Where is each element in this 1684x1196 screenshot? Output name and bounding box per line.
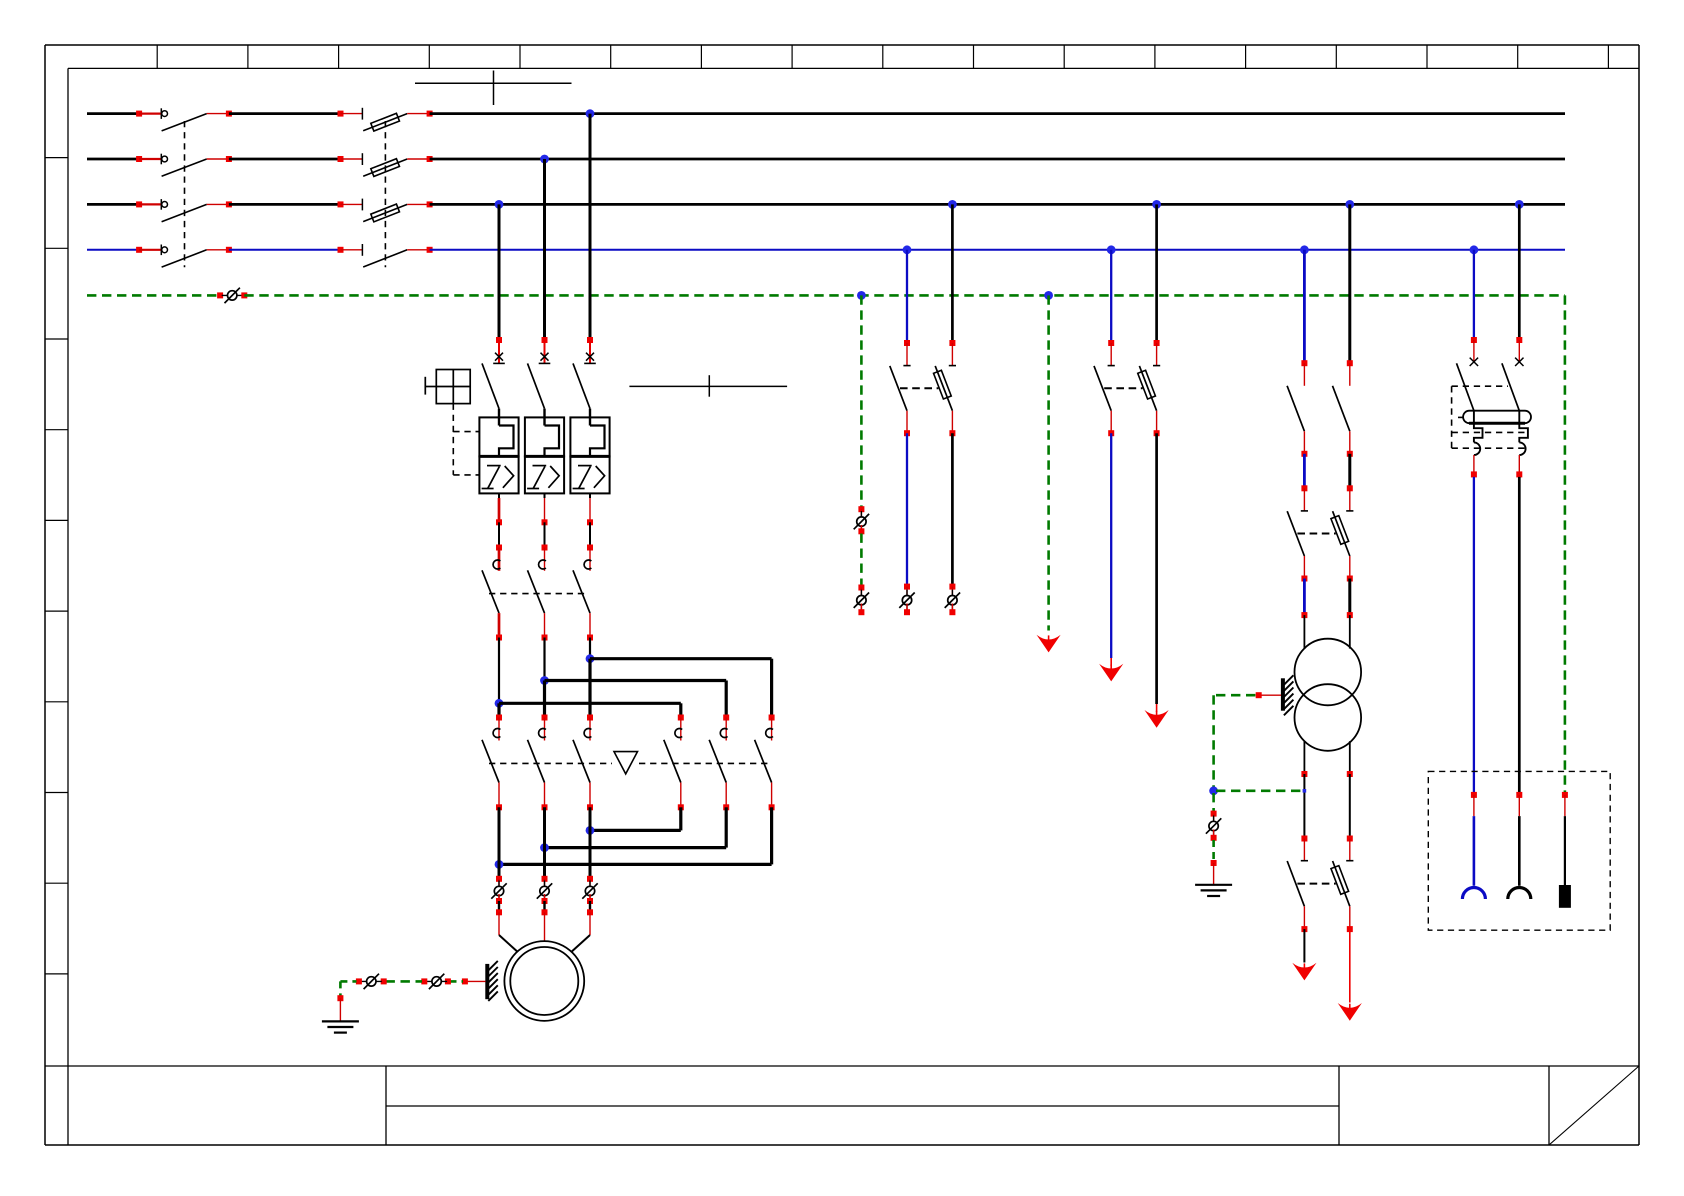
wire red PE valve3 a [860,509,862,518]
wire red PE valve5 b [1213,830,1215,838]
wire red delta contactor output 2 [544,783,546,808]
wire red to fuse-switch L2 [341,158,363,160]
terminal PE valve2 left [421,978,427,984]
terminal RCD output L [1516,471,1522,477]
wire bus L1 entry segment [87,112,139,115]
socket outlet dashed enclosure [1428,771,1610,930]
terminal PE earth transformer [1211,860,1217,866]
terminal Q0 output L3 [226,201,232,207]
wire PE green transformer ground [1216,694,1256,697]
terminal feeder2 switch Q2 output N [904,430,910,436]
wire PE green transformer drop [1212,695,1215,788]
terminal PE earth [337,995,343,1001]
wire red motor ground [466,980,486,982]
wire red Q0 pole L3 output [207,203,229,205]
wire bus N entry segment [87,249,139,251]
terminal delta contactor output pole 2 [542,804,548,810]
wire red contactor output pole 1 [498,613,501,637]
wire drop L3 RCD [1518,204,1521,340]
wire motor lead black 2 [543,901,545,912]
wire drop L1 to breaker [589,114,592,340]
terminal feeder2 isolator input N [904,584,910,590]
terminal transformer switch Q4 input N [1301,485,1307,491]
wire secondary lead N [1303,741,1305,771]
terminal transformer ground [1256,692,1262,698]
RCD contact cross N [1470,358,1478,366]
terminal on L2 at main switch input [136,156,142,162]
node bridge pole 1 [495,699,504,708]
wire red contactor output pole 3 [589,613,591,637]
terminal fuse-switch output L3 [427,201,433,207]
delta contactor KM2 contact pole 2 [528,729,546,783]
PE isolator valve symbol [222,288,243,303]
terminal contactor output pole 3 [587,635,593,641]
wire red Q0 pole L2 output [207,158,229,160]
wire drop N transformer [1303,250,1306,363]
terminal fuse-switch output L1 [427,111,433,117]
wire red switch3 out L [1349,906,1351,926]
delta contactor KM2 contact pole 1 [482,729,500,783]
fuse-switch feeder3 switch Q3 L pole [1138,366,1157,411]
wire secondary N down [1303,774,1305,839]
breaker Q1 magnetic trip box pole 2 [525,417,564,457]
wire red transformer ground [1262,694,1282,696]
terminal PE drop1 b [858,528,864,534]
wire bus N middle segment [229,249,341,251]
terminal transformer switch Q4 output L [1347,576,1353,582]
wire PE green tap to secondary [1216,789,1302,792]
motor isolator valve pole 2 [537,881,552,902]
terminal PE drop1 end [858,609,864,615]
terminal transformer switch Q4 input L [1347,485,1353,491]
terminal PE drop1 c [858,585,864,591]
wire red feeder2 switch Q2 output N [906,411,908,434]
pin tick transformer switch Q4 N [1301,510,1308,512]
wire red contactor input pole 1 [498,548,501,571]
node N RCD feeder [1470,245,1479,254]
wire red motor isolator 3b [589,894,591,901]
terminal feeder3 switch Q3 input L [1154,340,1160,346]
terminal Q0 output N [226,247,232,253]
wire red PE valve3 b [860,525,862,531]
wire red PE valve4 b [860,604,862,613]
feeder2 isolator valve L [945,590,960,611]
wire red transformer switch Q4 output N [1303,556,1305,579]
linkage dashed contactor KM1 [489,593,588,595]
wire red motor isolator 1a [498,879,500,888]
node N feeder 2 [903,245,912,254]
wire red motor isolator 2a [544,879,546,888]
wire red PE valve4 a [860,588,862,598]
earth symbol motor PE [322,1021,359,1032]
terminal breaker Q1 input pole 1 [496,337,502,343]
terminal motor isolator input pole 2 [542,876,548,882]
terminal Q0 output L1 [226,111,232,117]
node L2 motor feeder [540,155,549,164]
terminal fuse-switch output L2 [427,156,433,162]
terminal switch3 output N [1301,926,1307,932]
wire bus L1 middle segment [229,112,341,115]
terminal contactor output pole 1 [496,635,502,641]
terminal delta contactor input pole 3 [587,715,593,721]
motor chassis ground flag [487,961,498,1001]
terminal feeder3 switch Q3 output N [1108,430,1114,436]
RCD blade N [1457,363,1474,410]
wire transformer inter N [1303,454,1306,489]
transformer T1 [1295,639,1362,751]
terminal on L1 at main switch input [136,111,142,117]
socket PE pin [1559,816,1571,908]
node L3 transformer feeder [1345,200,1354,209]
wire red delta contactor output 3 [589,783,591,808]
terminal breaker Q1 input pole 2 [542,337,548,343]
linkage dashed delta contactor KM2 [489,762,769,764]
terminal delta contactor input pole 1 [496,715,502,721]
disconnector Q0 pole L3 [161,199,206,222]
disconnector Q0 pole N [161,245,206,268]
wire red to earth transformer [1213,863,1215,885]
terminal motor isolator output pole 3 [587,898,593,904]
wire red transformer switch1 out N [1303,431,1305,454]
terminal breaker Q1 input pole 3 [587,337,593,343]
terminal breaker output pole 1 [496,519,502,525]
title block [45,1066,1639,1145]
terminal motor lead pole 3 [587,909,593,915]
wire N RCD down [1473,477,1475,793]
transformer switch3 fuse L [1331,861,1350,906]
PE valve 5 [1206,816,1221,837]
wire red Q0 pole N output [207,249,229,251]
node PE drop 2 [1044,291,1053,300]
terminal motor isolator output pole 2 [542,898,548,904]
wire transformer inter L [1348,454,1351,489]
wire red transformer switch Q4 input L [1349,488,1351,511]
fuse-switch feeder2 switch Q2 L pole [934,366,953,411]
terminal PE valve5 b [1211,835,1217,841]
wire bridge pole1 horizontal [499,703,681,717]
RCD pole through-pill N [1473,411,1475,424]
wire red motor isolator 2b [544,894,546,901]
breaker Q1 thermal trip box pole 1 with I> symbol [479,456,518,493]
wire transformer to primary L [1348,579,1351,616]
wire L RCD down [1518,477,1521,793]
node delta return pole2 [540,843,549,852]
wire red switch3 out N [1303,906,1305,926]
wire breaker Q1 output pole 1 [498,493,500,522]
fuse-switch F0 pole L2 [362,153,407,176]
RCD pole through-pill L [1518,411,1520,424]
wire red fuse-switch output L2 [407,158,429,160]
wire pole2 continue [543,681,546,718]
terminal transformer secondary L [1347,771,1353,777]
wire secondary departure N [1303,929,1305,962]
terminal RCD input N [1471,337,1477,343]
wire red feeder3 switch Q3 output N [1110,411,1112,434]
wire node pole2 to bridge [543,638,545,681]
fuse-switch transformer switch Q4 L pole [1331,511,1350,556]
wire red transformer switch Q4 input N [1303,488,1305,511]
wire PE drop1 lower [860,534,863,585]
linkage dashed F0 [384,121,386,267]
wire red delta contactor input 4 [680,718,682,741]
wire drop N feeder2 [906,250,908,343]
node PE transformer [1209,786,1218,795]
contactor KM1 contact pole 1 [482,560,500,613]
wire red fuse-switch output N [407,249,429,251]
linkage dashed feeder3 switch Q3 [1104,387,1142,389]
terminal delta contactor input pole 4 [678,715,684,721]
wire red feeder2 switch Q2 input L [951,343,953,366]
wire bus L2 entry segment [87,158,139,161]
fuse-switch F0 pole L1 [362,108,407,131]
wire delta return 2 [545,807,727,847]
switch blade feeder3 switch Q3 N pole [1094,366,1111,411]
breaker Q1 contact pole 3 [573,353,596,426]
terminal delta contactor output pole 5 [723,804,729,810]
switch blade transformer switch Q4 N pole [1287,511,1304,556]
wire red transformer switch Q4 output L [1349,556,1351,579]
pin tick feeder3 switch Q3 L [1153,365,1160,367]
transformer switch1 blade L [1333,386,1350,431]
wire red breaker input pole 1 [498,340,500,363]
wire drop N RCD [1473,250,1475,340]
wire red feeder3 switch Q3 input N [1110,343,1112,366]
wire secondary L down [1349,774,1351,839]
wire red L2 to disconnector Q0 [139,158,161,160]
wire red switch3 in N [1303,839,1305,861]
wire red to fuse-switch N [341,249,363,251]
wire node pole1 to bridge [498,638,500,704]
node L3 motor feeder [495,200,504,209]
departure arrow feeder3 N [1099,658,1123,681]
wire red delta contactor input 3 [589,718,591,741]
wire node pole3 to bridge [589,638,591,659]
breaker Q1 thermal trip box pole 2 with I> symbol [525,456,564,493]
pin tick transformer switch Q4 L [1346,510,1353,512]
terminal fuse-switch F0 input L1 [338,111,344,117]
wire drop N feeder3 [1110,250,1112,343]
terminal contactor KM1 input pole 1 [496,545,502,551]
wire bus L3 middle segment [229,203,341,206]
wire PE green corner [340,981,356,995]
terminal fuse-switch F0 input N [338,247,344,253]
RCD contact cross L [1515,358,1523,366]
node N feeder 3 [1107,245,1116,254]
wire red Q0 pole L1 output [207,113,229,115]
node delta return pole3 [586,826,595,835]
linkage dashed operator to trip units [453,404,479,475]
breaker Q1 magnetic trip box pole 1 [479,417,518,457]
RCD toroid bump N [1474,442,1480,455]
pin tick feeder2 switch Q2 L [949,365,956,367]
transformer ground flag [1283,675,1294,715]
wire red feeder3 switch Q3 input L [1156,343,1158,366]
terminal fuse-switch F0 input L3 [338,201,344,207]
wire motor lead black 1 [498,901,500,912]
terminal breaker output pole 3 [587,519,593,525]
wire primary lead L [1349,615,1351,649]
pin tick feeder2 switch Q2 N [903,365,910,367]
wire bridge pole3 horizontal [590,659,772,718]
terminal PE isolator input [217,292,223,298]
terminal feeder2 switch Q2 input N [904,340,910,346]
node bridge pole 3 [586,654,595,663]
linkage dashed Q0 [184,121,186,267]
PE valve 3 [854,511,869,532]
switch blade feeder2 switch Q2 N pole [890,366,907,411]
terminal transformer primary N [1301,612,1307,618]
terminal contactor KM1 input pole 3 [587,545,593,551]
terminal motor lead pole 1 [496,909,502,915]
wire red RCD input N [1473,340,1475,361]
departure arrow transformer N [1292,963,1316,981]
terminal feeder3 switch Q3 input N [1108,340,1114,346]
delta contactor KM2 contact pole 6 [755,729,773,783]
wire red RCD output L [1518,455,1520,472]
wire motor lead bus pole1 [498,807,501,879]
pin tick feeder3 switch Q3 N [1108,365,1115,367]
transformer switch3 blade N [1287,861,1304,906]
terminal transformer switch3 input N [1301,836,1307,842]
wire red L3 to disconnector Q0 [139,203,161,205]
wire red motor lead W [572,912,591,952]
wire transformer to primary N [1303,579,1306,616]
terminal motor isolator input pole 1 [496,876,502,882]
terminal motor lead pole 2 [542,909,548,915]
breaker Q1 contact pole 2 [528,353,551,426]
socket contact L [1508,816,1531,899]
breaker Q1 thermal trip box pole 3 with I> symbol [570,456,609,493]
node N transformer feeder [1300,245,1309,254]
terminal transformer switch3 input L [1347,836,1353,842]
wire PE green drop to sockets [1564,295,1567,792]
terminal PE valve1 right [381,978,387,984]
terminal Q0 output L2 [226,156,232,162]
wire PE drop1 upper [860,295,863,506]
terminal feeder2 end N [904,609,910,615]
wire motor lead black 3 [589,901,591,912]
departure arrow transformer L [1338,1003,1362,1021]
switch blade F0 neutral pole [362,244,407,267]
departure arrow feeder3 L [1145,704,1169,728]
revision mark symbol 2 [629,375,787,397]
revision mark symbol 1 [415,71,572,106]
wire red delta contactor output 1 [498,783,500,808]
wire red delta contactor output 6 [771,783,773,808]
wire drop L3 to breaker [498,204,501,340]
node PE drop 1 [857,291,866,300]
wire to contactor KM1 pole 3 [589,522,591,547]
bus L1 main horizontal [430,112,1565,115]
terminal contactor KM1 input pole 2 [542,545,548,551]
terminal delta contactor output pole 3 [587,804,593,810]
wire red feeder2 isolator Na [906,587,908,597]
terminal transformer switch1 output N [1301,451,1307,457]
terminal motor isolator input pole 3 [587,876,593,882]
wire red to earth [339,998,341,1021]
wire to contactor KM1 pole 1 [498,522,500,547]
feeder2 isolator valve N [899,590,914,611]
terminal transformer switch1 input L [1347,360,1353,366]
transformer switch1 blade N [1287,386,1304,431]
linkage dashed switch3 [1297,883,1335,885]
wire drop L3 feeder3 [1155,204,1158,343]
wire N feeder3 down [1110,433,1112,658]
earth symbol transformer [1195,885,1232,896]
wire PE drop2 [1047,295,1050,630]
terminal breaker output pole 2 [542,519,548,525]
frame top ruler ticks [157,45,1608,68]
terminal delta contactor input pole 5 [723,715,729,721]
wire PE green to earth [1212,840,1215,860]
pin tick switch3 L [1346,860,1353,862]
terminal delta contactor output pole 4 [678,804,684,810]
wire red L1 to disconnector Q0 [139,112,161,114]
wire motor lead bus pole3 [589,807,592,879]
bus L3 main horizontal [430,203,1565,206]
delta symbol on KM2 linkage [614,752,638,774]
RCD toroid bump L [1519,442,1525,455]
PE valve 4 [854,590,869,611]
wire drop L3 transformer [1348,204,1351,363]
motor isolator valve pole 3 [582,881,597,902]
terminal delta contactor output pole 1 [496,804,502,810]
terminal PE valve2 right [445,978,451,984]
wire red breaker input pole 3 [589,340,591,363]
wire red contactor output pole 2 [544,613,546,637]
PE valve 2 [426,974,447,989]
node PE tap on secondary [1303,789,1307,793]
frame left ruler ticks [45,158,68,974]
wire primary lead N [1303,615,1305,649]
terminal motor isolator output pole 1 [496,898,502,904]
wire to contactor KM1 pole 2 [544,522,546,547]
terminal feeder2 end L [949,609,955,615]
contactor KM1 contact pole 2 [528,560,546,613]
terminal PE valve1 left [356,978,362,984]
motor M1 [504,941,584,1021]
wire red feeder3 switch Q3 output L [1156,411,1158,434]
node delta return pole1 [495,860,504,869]
PE bus left segment [87,294,220,297]
wire red delta contactor input 1 [498,718,500,741]
wire red motor lead V [544,912,546,941]
wire red transformer switch1 in L [1349,363,1351,386]
wire red to fuse-switch L3 [341,203,363,205]
terminal socket L [1516,792,1522,798]
terminal socket N [1471,792,1477,798]
terminal transformer switch1 input N [1301,360,1307,366]
terminal transformer switch Q4 output N [1301,576,1307,582]
linkage dashed feeder2 switch Q2 [900,387,938,389]
PE bus main segment [244,294,1565,297]
wire red PE valve5 a [1213,814,1215,823]
terminal feeder3 switch Q3 output L [1154,430,1160,436]
wire red RCD input L [1518,340,1520,361]
wire red RCD output N [1473,455,1475,472]
contactor KM1 contact pole 3 [573,560,591,613]
wire breaker Q1 output pole 3 [589,493,591,522]
node L3 feeder 2 [948,200,957,209]
wire bus L2 middle segment [229,158,341,161]
wire L feeder2 down [951,433,954,586]
terminal contactor output pole 2 [542,635,548,641]
wire red socket PE [1564,795,1566,816]
wire red motor isolator 1b [498,894,500,901]
wire N feeder2 down [906,433,908,586]
node L3 RCD feeder [1515,200,1524,209]
wire PE green below node [1212,793,1215,811]
